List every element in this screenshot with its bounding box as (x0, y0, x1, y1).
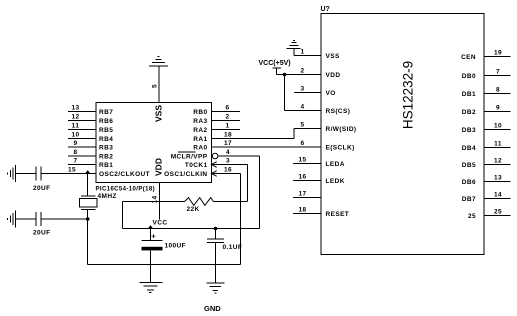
svg-text:17: 17 (298, 191, 306, 198)
svg-text:14: 14 (494, 192, 502, 199)
svg-text:9: 9 (496, 105, 500, 112)
svg-text:LEDK: LEDK (326, 178, 345, 185)
svg-text:2: 2 (225, 114, 229, 121)
svg-text:RS(CS): RS(CS) (326, 108, 351, 115)
svg-text:RA1: RA1 (193, 136, 207, 143)
svg-text:RB0: RB0 (193, 109, 207, 116)
svg-text:RB3: RB3 (99, 144, 113, 151)
svg-text:VSS: VSS (326, 53, 340, 60)
svg-text:+: + (151, 232, 156, 241)
svg-text:LEDA: LEDA (326, 161, 345, 168)
svg-text:6: 6 (300, 140, 304, 147)
svg-text:RB6: RB6 (99, 118, 113, 125)
svg-text:DB0: DB0 (462, 73, 476, 80)
svg-text:1: 1 (300, 49, 304, 56)
svg-text:13: 13 (71, 105, 79, 112)
svg-text:T0CK1: T0CK1 (185, 162, 208, 169)
svg-text:17: 17 (224, 140, 232, 147)
svg-text:20UF: 20UF (33, 230, 51, 237)
svg-text:7: 7 (496, 69, 500, 76)
svg-text:5: 5 (152, 84, 159, 88)
svg-text:11: 11 (494, 141, 502, 148)
svg-text:HS12232-9: HS12232-9 (401, 61, 416, 129)
svg-text:18: 18 (224, 132, 232, 139)
svg-text:14: 14 (152, 195, 159, 203)
svg-text:VDD: VDD (326, 72, 341, 79)
svg-text:16: 16 (224, 167, 232, 174)
svg-text:RB5: RB5 (99, 127, 113, 134)
svg-text:DB2: DB2 (462, 109, 476, 116)
svg-text:CEN: CEN (461, 54, 476, 61)
svg-text:5: 5 (300, 122, 304, 129)
svg-text:E(SCLK): E(SCLK) (326, 144, 355, 151)
svg-text:15: 15 (68, 167, 76, 174)
svg-text:U?: U? (321, 6, 330, 13)
svg-text:VSS: VSS (154, 105, 164, 122)
svg-text:9: 9 (73, 140, 77, 147)
svg-text:OSC1/CLKIN: OSC1/CLKIN (164, 171, 207, 178)
svg-text:10: 10 (71, 132, 79, 139)
svg-text:11: 11 (72, 123, 80, 130)
svg-text:1: 1 (225, 123, 229, 130)
svg-text:DB1: DB1 (462, 91, 476, 98)
svg-text:20UF: 20UF (33, 185, 51, 192)
svg-text:RB4: RB4 (99, 136, 113, 143)
svg-text:18: 18 (298, 207, 306, 214)
svg-text:16: 16 (298, 174, 306, 181)
svg-text:RA3: RA3 (193, 118, 207, 125)
svg-text:MCLR/VPP: MCLR/VPP (171, 153, 208, 160)
svg-text:2: 2 (300, 68, 304, 75)
svg-text:4: 4 (226, 149, 230, 156)
svg-text:R/W(SID): R/W(SID) (326, 126, 357, 133)
svg-text:VO: VO (326, 90, 336, 97)
svg-text:0.1UF: 0.1UF (223, 244, 243, 251)
svg-text:4MHZ: 4MHZ (98, 193, 117, 200)
svg-text:RB2: RB2 (99, 153, 113, 160)
svg-text:DB3: DB3 (462, 127, 476, 134)
svg-text:DB5: DB5 (462, 162, 476, 169)
svg-text:4: 4 (300, 104, 304, 111)
svg-text:15: 15 (298, 157, 306, 164)
svg-text:12: 12 (71, 114, 79, 121)
svg-text:8: 8 (73, 149, 77, 156)
svg-text:13: 13 (494, 175, 502, 182)
svg-text:VDD: VDD (154, 158, 164, 176)
svg-text:6: 6 (225, 105, 229, 112)
svg-text:VCC(+5V): VCC(+5V) (259, 60, 291, 67)
svg-text:25: 25 (468, 213, 476, 220)
svg-text:RA0: RA0 (193, 144, 207, 151)
svg-text:VCC: VCC (153, 220, 168, 227)
svg-text:25: 25 (494, 209, 502, 216)
svg-text:19: 19 (494, 50, 502, 57)
svg-text:100UF: 100UF (165, 243, 187, 250)
svg-text:GND: GND (204, 304, 221, 313)
svg-text:3: 3 (300, 86, 304, 93)
svg-text:10: 10 (494, 123, 502, 130)
svg-text:22K: 22K (187, 206, 200, 213)
svg-text:DB7: DB7 (462, 196, 476, 203)
svg-text:RB1: RB1 (99, 162, 113, 169)
svg-text:8: 8 (496, 87, 500, 94)
svg-text:3: 3 (226, 158, 230, 165)
svg-text:RESET: RESET (326, 211, 350, 218)
svg-text:RA2: RA2 (193, 127, 207, 134)
svg-text:PIC16C54-10/P(18): PIC16C54-10/P(18) (96, 187, 156, 193)
svg-text:OSC2/CLKOUT: OSC2/CLKOUT (99, 171, 150, 178)
svg-text:7: 7 (73, 158, 77, 165)
svg-text:12: 12 (494, 158, 502, 165)
svg-text:DB6: DB6 (462, 179, 476, 186)
svg-text:DB4: DB4 (462, 145, 476, 152)
svg-text:RB7: RB7 (99, 109, 113, 116)
